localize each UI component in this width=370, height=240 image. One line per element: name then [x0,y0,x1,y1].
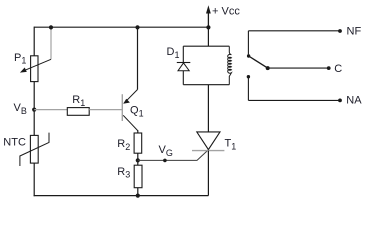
svg-text:Q1: Q1 [130,105,144,119]
svg-text:T1: T1 [225,138,237,152]
node R2 R3 junction [136,158,140,162]
contact NA [247,75,363,106]
node VB [14,102,37,116]
wire left vertical top [33,27,35,56]
node Vcc [206,25,210,29]
svg-text:R3: R3 [117,166,130,180]
node VG [159,144,173,162]
wire P1 to NTC [33,82,35,136]
node R3 bottom [136,194,140,198]
resistor R3 [117,165,142,188]
wire Vcc feed to relay box [207,27,209,46]
relay armature [249,56,268,68]
wire collector to R2 [137,130,139,133]
svg-text:VG: VG [159,144,173,158]
wire top rail [34,26,208,28]
wire R3 to bottom rail [137,188,139,196]
transistor Q1 [122,27,143,130]
svg-text:NA: NA [346,94,362,106]
thermistor NTC [3,133,49,166]
relay coil K [228,46,232,84]
svg-text:NF: NF [347,26,362,38]
svg-text:+ Vcc: + Vcc [212,5,240,17]
svg-text:R1: R1 [72,94,85,108]
thyristor T1 [192,85,236,196]
power +Vcc [206,5,240,27]
node Q1 emitter on rail [135,25,139,29]
potentiometer P1 [14,27,51,81]
wire R2 to R3 [137,153,139,165]
svg-text:D1: D1 [167,46,180,60]
wire NTC to bottom rail [33,163,35,196]
relay frame [183,46,229,84]
diode D1 [167,46,191,70]
wire VB to R1 [34,109,67,111]
svg-text:NTC: NTC [3,137,26,149]
resistor R2 [117,133,141,153]
svg-text:VB: VB [14,102,27,116]
svg-text:C: C [334,63,342,75]
resistor R1 [67,94,89,115]
svg-text:R2: R2 [117,138,130,152]
contact NF [247,26,362,58]
wire bottom rail [34,195,209,197]
node wiper junction [49,25,53,29]
svg-text:P1: P1 [14,52,26,66]
wire R1 to Q1 base [89,109,122,111]
wire VG to gate [138,150,209,161]
contact C common [266,63,343,75]
